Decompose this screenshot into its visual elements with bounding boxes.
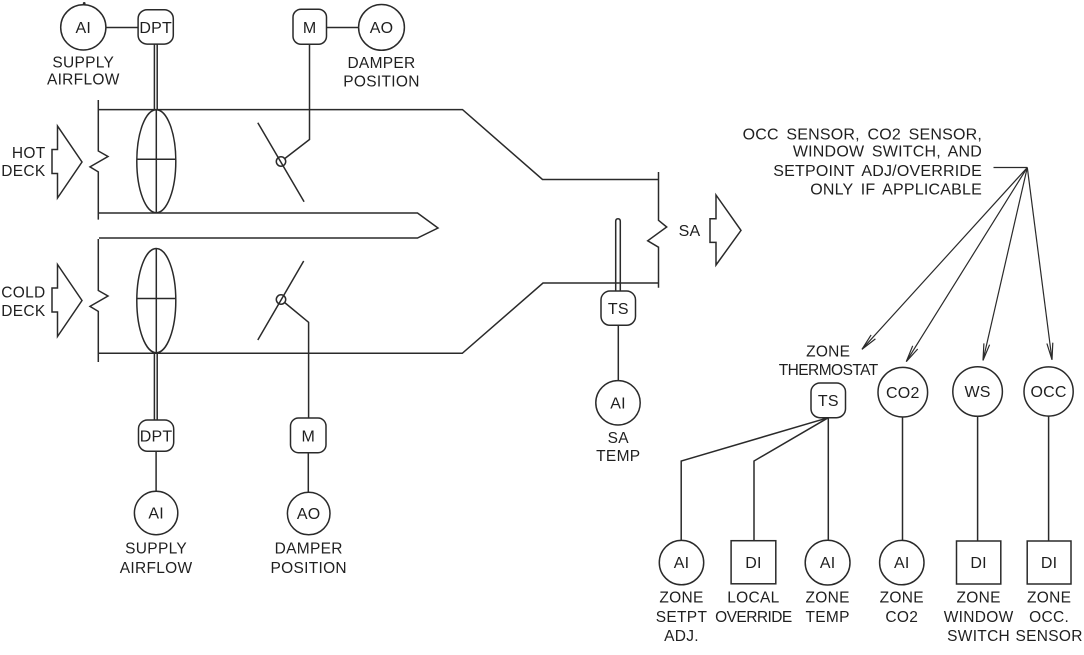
svg-text:OCC.: OCC. bbox=[1029, 609, 1069, 626]
svg-text:ZONE: ZONE bbox=[659, 590, 703, 607]
svg-text:ZONE: ZONE bbox=[956, 590, 1000, 607]
DPT box bottom bbox=[139, 420, 174, 451]
svg-text:SUPPLY: SUPPLY bbox=[52, 55, 114, 72]
AI circle SA temp bbox=[596, 381, 640, 425]
wire TS to zone temp AI bbox=[827, 418, 829, 540]
svg-text:TEMP: TEMP bbox=[805, 609, 849, 626]
svg-text:AI: AI bbox=[148, 506, 164, 523]
svg-text:SENSOR: SENSOR bbox=[1015, 628, 1082, 645]
damper position label bottom bbox=[270, 541, 346, 578]
wire TS to zone setpt AI bbox=[681, 418, 828, 540]
OCC circle bbox=[1024, 367, 1073, 416]
svg-text:AIRFLOW: AIRFLOW bbox=[47, 72, 120, 89]
duct left vertical hot with break bbox=[90, 100, 108, 220]
svg-text:AO: AO bbox=[370, 20, 394, 37]
AO circle top bbox=[359, 5, 405, 51]
wire M to AO bottom bbox=[307, 453, 309, 493]
svg-text:DECK: DECK bbox=[1, 303, 46, 320]
svg-text:DPT: DPT bbox=[139, 20, 172, 37]
M box top bbox=[293, 9, 327, 44]
svg-text:WINDOW: WINDOW bbox=[944, 609, 1014, 626]
duct left vertical cold with break bbox=[90, 239, 108, 362]
DI box zone window switch bbox=[957, 541, 1001, 584]
pneumatic double line duct to DPT bottom bbox=[154, 353, 157, 420]
svg-text:DI: DI bbox=[1041, 555, 1057, 572]
svg-text:DAMPER: DAMPER bbox=[347, 55, 415, 72]
svg-text:SWITCH: SWITCH bbox=[947, 628, 1010, 645]
svg-text:ADJ.: ADJ. bbox=[664, 628, 699, 645]
AI circle zone setpt bbox=[659, 540, 703, 584]
flow sensor ellipse hot deck bbox=[137, 110, 176, 213]
svg-text:COLD: COLD bbox=[1, 285, 45, 302]
AI circle zone temp bbox=[805, 540, 850, 585]
svg-text:AI: AI bbox=[820, 555, 836, 572]
svg-text:AIRFLOW: AIRFLOW bbox=[120, 560, 193, 577]
svg-text:AI: AI bbox=[674, 555, 690, 572]
junction dot on AI circle top bbox=[83, 2, 86, 5]
svg-text:ZONE: ZONE bbox=[1027, 590, 1071, 607]
flow sensor ellipse cold deck bbox=[137, 249, 176, 353]
svg-text:SA: SA bbox=[679, 223, 701, 240]
svg-text:ZONE: ZONE bbox=[880, 590, 924, 607]
damper hot linkage bbox=[285, 44, 310, 158]
wire CO2 to AI bbox=[902, 417, 904, 541]
SA label bbox=[679, 223, 701, 240]
svg-text:TS: TS bbox=[608, 301, 629, 318]
wire DPT to AI bottom bbox=[155, 451, 157, 491]
WS circle bbox=[953, 367, 1003, 417]
wire WS to DI bbox=[977, 416, 979, 541]
svg-text:AI: AI bbox=[610, 395, 626, 412]
center splitter wedge bbox=[98, 213, 438, 238]
TS box SA bbox=[601, 291, 636, 325]
zone temp label bbox=[805, 590, 849, 627]
svg-text:AI: AI bbox=[76, 20, 92, 37]
svg-text:TS: TS bbox=[818, 393, 839, 410]
svg-text:LOCAL: LOCAL bbox=[727, 590, 779, 607]
svg-text:M: M bbox=[303, 20, 317, 37]
svg-text:WINDOW SWITCH, AND: WINDOW SWITCH, AND bbox=[793, 144, 982, 161]
svg-text:OVERRIDE: OVERRIDE bbox=[715, 609, 792, 626]
leader line from note bbox=[994, 167, 1028, 169]
damper cold linkage bbox=[285, 303, 309, 419]
svg-text:HOT: HOT bbox=[12, 145, 46, 162]
wire OCC to DI bbox=[1048, 416, 1050, 541]
svg-text:CO2: CO2 bbox=[885, 609, 918, 626]
wire M to AO bbox=[327, 27, 359, 29]
damper hot deck blade and pivot bbox=[258, 123, 304, 202]
supply airflow label bottom bbox=[120, 541, 193, 578]
local override label bbox=[715, 590, 792, 627]
svg-text:DECK: DECK bbox=[1, 163, 46, 180]
leader arrow to CO2 bbox=[906, 168, 1027, 362]
wire AI to DPT bbox=[106, 27, 138, 29]
hot deck label bbox=[1, 145, 46, 180]
AI circle bottom left bbox=[134, 491, 177, 534]
svg-text:OCC: OCC bbox=[1031, 384, 1067, 401]
DPT box top bbox=[138, 10, 173, 44]
TS box zone thermostat bbox=[811, 383, 846, 418]
svg-text:SUPPLY: SUPPLY bbox=[125, 541, 187, 558]
svg-text:M: M bbox=[302, 429, 316, 446]
leader arrow to OCC bbox=[1027, 168, 1053, 360]
leader arrow to WS bbox=[983, 168, 1027, 361]
damper cold deck blade and pivot bbox=[258, 261, 304, 340]
M box bottom bbox=[291, 418, 327, 453]
AI circle zone co2 bbox=[880, 540, 924, 584]
cold deck arrow bbox=[52, 265, 82, 337]
pneumatic double line DPT to duct bbox=[154, 44, 157, 110]
wire TS to AI bbox=[617, 325, 619, 380]
svg-text:POSITION: POSITION bbox=[343, 74, 419, 91]
cold deck label bbox=[1, 285, 46, 321]
duct right outlet vertical with break bbox=[648, 172, 667, 288]
svg-text:SA: SA bbox=[608, 430, 630, 447]
annotation note text bbox=[743, 127, 982, 199]
svg-text:DAMPER: DAMPER bbox=[275, 541, 343, 558]
svg-text:ZONE: ZONE bbox=[805, 590, 849, 607]
zone co2 label bbox=[880, 590, 924, 627]
svg-text:OCC SENSOR, CO2 SENSOR,: OCC SENSOR, CO2 SENSOR, bbox=[743, 127, 982, 144]
zone thermostat label bbox=[779, 343, 879, 378]
zone window switch label bbox=[944, 590, 1014, 645]
zone occ sensor label bbox=[1015, 590, 1082, 645]
svg-text:DI: DI bbox=[970, 555, 986, 572]
svg-text:CO2: CO2 bbox=[886, 385, 920, 402]
svg-text:TEMP: TEMP bbox=[596, 448, 640, 465]
hot deck arrow bbox=[52, 126, 82, 198]
zone setpt adj label bbox=[656, 590, 708, 645]
DI box local override bbox=[731, 541, 776, 584]
damper position label top bbox=[343, 55, 419, 91]
AO circle bottom bbox=[287, 492, 330, 535]
svg-text:DPT: DPT bbox=[140, 429, 173, 446]
svg-text:SETPOINT ADJ/OVERRIDE: SETPOINT ADJ/OVERRIDE bbox=[773, 163, 982, 180]
AI circle top left bbox=[61, 5, 106, 50]
svg-text:DI: DI bbox=[745, 555, 761, 572]
svg-text:AO: AO bbox=[297, 506, 321, 523]
leader arrow to zone thermostat bbox=[862, 168, 1027, 350]
svg-text:ONLY IF APPLICABLE: ONLY IF APPLICABLE bbox=[810, 182, 982, 199]
SA temp probe double line bbox=[616, 219, 621, 291]
wire TS to local override DI bbox=[754, 418, 828, 541]
cold deck duct bottom wall bbox=[98, 283, 658, 353]
svg-text:AI: AI bbox=[894, 555, 910, 572]
svg-text:WS: WS bbox=[965, 384, 991, 401]
svg-text:SETPT: SETPT bbox=[656, 609, 708, 626]
svg-text:POSITION: POSITION bbox=[270, 560, 346, 577]
SA arrow bbox=[710, 195, 741, 265]
supply airflow label top bbox=[47, 55, 120, 89]
DI box zone occ sensor bbox=[1027, 541, 1071, 584]
CO2 circle bbox=[878, 367, 928, 417]
svg-text:THERMOSTAT: THERMOSTAT bbox=[779, 362, 879, 379]
svg-text:ZONE: ZONE bbox=[806, 343, 850, 360]
SA temp label bbox=[596, 430, 640, 465]
hot deck duct top wall bbox=[98, 110, 658, 180]
